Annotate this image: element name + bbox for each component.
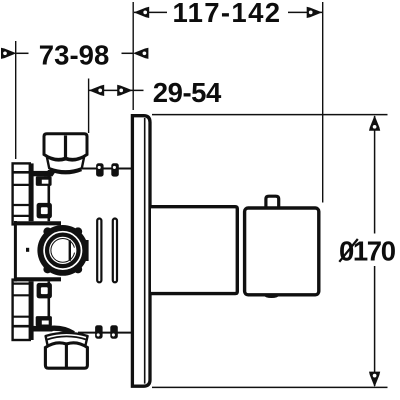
dimension 73-98 right arrow — [133, 48, 148, 59]
rail ribs upper — [13, 172, 30, 216]
dimension 117-142 right arrow — [307, 7, 322, 18]
upper connector wedge — [44, 170, 57, 177]
lower bolt square — [36, 316, 52, 326]
dimension 29-54 left arrow — [89, 85, 104, 96]
dimension D170 top arrow — [369, 115, 380, 130]
lower pipe line to plate — [78, 332, 133, 334]
upper bolt square — [36, 176, 52, 186]
lower union nut body — [45, 343, 87, 368]
central bracket plate — [14, 221, 61, 282]
pipe fitting nipple upper-left — [96, 163, 104, 176]
extension line wall plane — [132, 2, 134, 110]
extension line plate top — [152, 114, 388, 116]
dimension D170 bottom arrow — [369, 372, 380, 387]
wall plate escutcheon edge profile — [132, 116, 150, 387]
thermostat handle knob button — [266, 196, 279, 208]
thermostat handle body — [245, 208, 319, 295]
extension line wall anchor left — [15, 41, 17, 159]
dimension 29-54 right arrow — [117, 85, 132, 96]
dimension 73-98 left arrow — [1, 48, 16, 59]
lower union nut skirt — [46, 333, 88, 347]
valve body column upper — [32, 163, 49, 224]
lower connector bar — [31, 326, 53, 332]
bottom mounting rail (ribbed strip lower) — [13, 280, 30, 340]
dimension 117-142 line — [134, 11, 322, 13]
valve port boss (dark ring) — [37, 225, 88, 276]
dimension 29-54 line — [89, 89, 144, 91]
svg-text:73-98: 73-98 — [39, 39, 110, 70]
dimension D170 line — [374, 116, 376, 386]
valve body column lower — [32, 281, 49, 340]
svg-text:29-54: 29-54 — [153, 77, 222, 108]
dimension D170 text — [339, 235, 396, 266]
svg-text:117-142: 117-142 — [173, 0, 281, 28]
extension line nut face — [88, 79, 90, 134]
upper nut skirt — [47, 157, 84, 174]
handle bottom tab — [265, 295, 279, 297]
fixing screw right — [113, 219, 117, 283]
upper connector bar — [31, 171, 53, 176]
upper pipe line to plate — [78, 168, 133, 170]
rail ribs lower — [13, 284, 30, 327]
pipe fitting nipple lower-left — [95, 325, 103, 339]
extension line plate bottom — [152, 386, 388, 388]
top mounting rail (ribbed strip upper) — [13, 163, 30, 224]
lower elbow pipe — [50, 328, 74, 342]
lower hollow square — [37, 283, 52, 299]
extension line handle front — [322, 2, 324, 203]
upper union nut body — [44, 134, 87, 160]
upper hollow square — [37, 203, 52, 219]
dimension 73-98 line — [16, 52, 133, 54]
pipe fitting nipple lower-right — [110, 325, 118, 339]
sleeve housing between plate and handle — [151, 207, 237, 294]
pipe fitting nipple upper-right — [111, 163, 119, 176]
dimension 117-142 left arrow — [134, 7, 149, 18]
fixing screw left — [97, 219, 101, 283]
